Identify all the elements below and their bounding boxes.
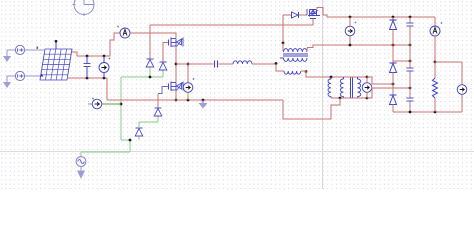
- AC control source Vtri: [76, 152, 86, 166]
- node: [339, 97, 342, 100]
- MOSFET M3: [307, 9, 320, 19]
- gate wire M2: [158, 87, 168, 94]
- wire: [301, 70, 306, 72]
- wire: [25, 75, 43, 77]
- wire M2 source: [175, 90, 177, 100]
- node: [282, 42, 285, 45]
- winding T1 secondary: [284, 71, 301, 74]
- on-off controller U_C: [135, 128, 143, 136]
- green control input wires: [81, 68, 163, 153]
- wire: [219, 63, 234, 65]
- clock icon (simulation control): [73, 0, 95, 16]
- node: [275, 62, 278, 65]
- node: [149, 76, 152, 79]
- wire T1 top-right to rail: [307, 45, 411, 52]
- label +: [355, 22, 357, 24]
- capacitor C2: [407, 45, 414, 88]
- label +: [109, 58, 111, 60]
- node: [434, 61, 437, 64]
- node: [187, 63, 190, 66]
- label s: [37, 47, 39, 49]
- diode D1: [390, 17, 397, 45]
- series resonant link wire: [176, 63, 214, 65]
- node: [392, 44, 395, 47]
- gate lead M3: [312, 19, 314, 26]
- inductor L_r: [233, 61, 252, 64]
- voltage sensor V_t2: [362, 77, 372, 98]
- label +: [441, 22, 443, 24]
- node: [366, 76, 369, 79]
- node: [86, 55, 89, 58]
- wire top rail to transformer T1: [282, 15, 284, 43]
- node: [175, 99, 178, 102]
- page boundary horizontal grey line: [0, 151, 474, 153]
- load resistor R_L: [433, 62, 438, 112]
- node: [434, 111, 437, 114]
- node: [175, 63, 178, 66]
- wire controller A output to gate rail: [149, 25, 151, 59]
- node: [202, 99, 205, 102]
- T2 bottom rail: [331, 97, 367, 99]
- node: [409, 87, 412, 90]
- wire ammeter to M1 drain: [130, 33, 176, 38]
- on-off controller U_B: [159, 62, 167, 70]
- MOSFET M2: [169, 82, 184, 92]
- HV diode D_hv: [283, 12, 307, 18]
- page boundary vertical grey line: [322, 0, 324, 189]
- wire half-bridge mid: [175, 46, 177, 82]
- wire: [7, 75, 15, 77]
- ground G3: [77, 167, 85, 179]
- wire PV+ to DC bus: [72, 33, 120, 56]
- node: [409, 60, 412, 63]
- MOSFET M1: [169, 38, 184, 48]
- capacitor C_in: [84, 56, 91, 78]
- voltmeter V_out: [457, 62, 467, 112]
- transformer T1: [280, 49, 308, 62]
- capacitor C_r: [215, 61, 218, 68]
- on-off controller U_D: [154, 108, 162, 116]
- node: [409, 44, 412, 47]
- DC- rail: [107, 99, 283, 101]
- node: [392, 16, 395, 19]
- node: [305, 70, 308, 73]
- node: panel top terminal: [55, 40, 58, 43]
- gate wire M1: [163, 43, 168, 63]
- wire: [276, 64, 284, 71]
- capacitor C1: [407, 17, 414, 45]
- node: [120, 103, 123, 106]
- inductor L2 vertical: [328, 77, 331, 98]
- wire bracket to diode column: [367, 77, 393, 84]
- wire to transformer: [252, 63, 276, 65]
- wire T1 bottom to T2: [306, 71, 367, 77]
- source VS1: [15, 45, 24, 54]
- on-off controller U_A: [146, 59, 154, 67]
- arrow tick: [40, 74, 44, 77]
- diode D2: [390, 45, 397, 84]
- node: [129, 139, 132, 142]
- capacitor C3: [407, 88, 414, 112]
- source VS2: [15, 71, 24, 80]
- wire M3 drain hat: [317, 8, 435, 18]
- node: [330, 76, 333, 79]
- ammeter A1: [120, 28, 130, 38]
- rail mid: [393, 60, 410, 62]
- bottom rail right block: [393, 111, 462, 113]
- label +: [117, 26, 119, 28]
- wire: [7, 49, 15, 51]
- ground G2: [3, 76, 11, 88]
- voltage sensor Vsen1: [183, 64, 193, 100]
- label +: [193, 78, 195, 80]
- node: [409, 111, 412, 114]
- ground G1: [3, 50, 11, 62]
- voltage sensor Vsen2: [88, 98, 121, 109]
- node: [349, 44, 352, 47]
- node: [103, 77, 106, 80]
- wire C output to D input: [139, 117, 158, 129]
- voltage sensor VDC1: [99, 56, 109, 78]
- node: [366, 97, 369, 100]
- node: [86, 77, 89, 80]
- wire C input: [138, 137, 140, 141]
- gate rail to M3: [150, 21, 313, 25]
- node: [187, 99, 190, 102]
- node: [349, 16, 352, 19]
- wire: [25, 49, 44, 51]
- solar panel PV1: [40, 42, 72, 80]
- transformer T2: [340, 77, 360, 98]
- node: [409, 16, 412, 19]
- ammeter A2: [430, 17, 440, 62]
- wire PV- to DC bus: [67, 78, 107, 100]
- wire bracket to cap column: [367, 88, 410, 98]
- node: [392, 83, 395, 86]
- node: [103, 55, 106, 58]
- ground G4: [199, 100, 208, 109]
- wire to voltmeter: [435, 61, 462, 63]
- diode D3: [390, 84, 397, 112]
- return wire T2 to DC-: [283, 98, 340, 119]
- voltage sensor V_hv: [345, 17, 355, 45]
- label minus: [70, 77, 74, 79]
